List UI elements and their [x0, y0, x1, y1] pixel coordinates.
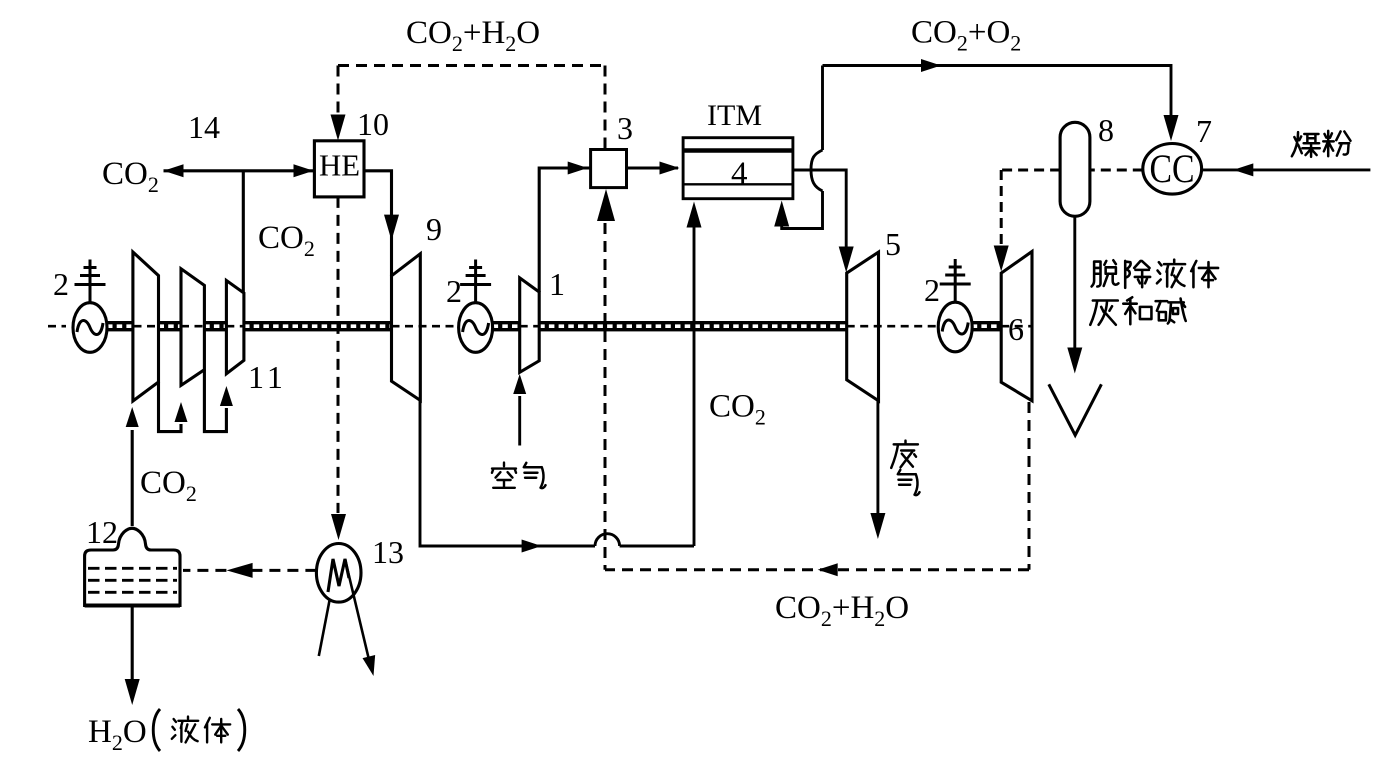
generator 2 (right)	[938, 259, 972, 352]
svg-text:14: 14	[188, 109, 220, 145]
svg-text:2: 2	[446, 273, 462, 309]
svg-text:13: 13	[372, 534, 404, 570]
heat exchanger HE (10)	[314, 141, 364, 197]
pipe: turbine 9 exhaust down and across	[420, 400, 595, 546]
dashed pipe: compressor 6 outlet down	[1028, 402, 1031, 570]
pipe: waste gas outlet	[876, 401, 879, 514]
svg-text:7: 7	[1196, 113, 1212, 149]
pipe: CO2 export / HE feed line with two arrowheads	[164, 169, 315, 172]
svg-text:1: 1	[549, 266, 565, 302]
V symbol (drain container)	[1049, 384, 1102, 435]
compressor 11: stage 3	[226, 281, 244, 374]
svg-text:CC: CC	[1150, 146, 1195, 191]
cooler 13 left leg	[319, 601, 330, 657]
pipe hop over dashed line	[595, 534, 620, 546]
pipe: S-hop of CO2+O2 line over ITM outlet	[811, 150, 823, 191]
svg-text:ITM: ITM	[707, 99, 762, 132]
cooler 13	[316, 544, 361, 603]
svg-text:10: 10	[357, 106, 389, 142]
dashed pipe: recycle up into mixer 3 bottom	[604, 223, 607, 570]
label coal powder (meifen)	[1292, 132, 1320, 157]
pipe: intercooler loop stage1 to stage2	[159, 382, 182, 432]
ash removal vessel 8	[1060, 122, 1090, 216]
svg-text:4: 4	[731, 156, 748, 192]
dashed pipe: recycle CO2+H2O into HE top	[337, 66, 340, 117]
dashed pipe: bottom CO2+H2O return	[605, 568, 1029, 571]
pipe: compressor discharge riser to HE line	[242, 171, 245, 293]
pipe: top CO2+O2 header to CC	[823, 66, 1172, 119]
svg-text:11: 11	[248, 359, 287, 395]
svg-text:3: 3	[617, 110, 633, 146]
svg-text:6: 6	[1008, 311, 1024, 347]
label air (kongqi)	[492, 463, 516, 488]
pipe: vessel 8 bottom drain	[1073, 216, 1076, 351]
turbine 5	[847, 252, 879, 401]
dashed pipe: top left CO2+H2O header	[338, 64, 605, 67]
turbine 9	[392, 254, 421, 401]
mixer box 3	[591, 150, 627, 188]
combustion chamber CC (7)	[1143, 144, 1202, 195]
tank 12 water level dashes	[88, 568, 177, 592]
pipe: CO2 riser into ITM bottom	[693, 227, 696, 546]
pipe: tank 12 water drain	[131, 606, 134, 683]
pipe: CO2 inlet from separator 12 to stage 1	[131, 430, 134, 526]
compressor 11: stage 2	[181, 269, 204, 386]
dashed pipe: downcomer into compressor 6	[1000, 170, 1003, 246]
pipe: CO2+O2 line up to top header	[821, 66, 824, 151]
air compressor 1	[520, 278, 540, 372]
pipe: across to CO2 riser	[620, 545, 694, 548]
svg-text:8: 8	[1098, 112, 1114, 148]
pipe: ITM bottom right port L-connection	[782, 191, 823, 229]
svg-text:5: 5	[885, 226, 901, 262]
dashed pipe: cooler 13 to separator 12	[183, 569, 316, 572]
pipe: HE outlet to turbine 9	[364, 171, 392, 276]
label: remove liquid ash and alkali	[1092, 260, 1119, 286]
shaft thick bar segments with white dashed centerline	[106, 321, 1001, 331]
svg-text:HE: HE	[319, 148, 360, 183]
label waste gas (feiqi)	[891, 441, 918, 468]
generator 2 (middle)	[459, 260, 493, 353]
svg-text:2: 2	[53, 266, 69, 302]
cooler 13 internal M coil	[328, 559, 349, 592]
dashed pipe: header down to mixer 3	[604, 66, 607, 150]
svg-text:12: 12	[86, 514, 118, 550]
pipe: ITM retentate outlet to turbine 5	[793, 170, 846, 250]
shaft thin dashed centerline segments	[48, 325, 1032, 328]
pipe: intercooler loop stage2 to stage3	[204, 370, 226, 432]
generator 2 (left)	[73, 260, 107, 353]
svg-text:CO2+H2O: CO2+H2O	[775, 590, 909, 631]
pipe: air inlet	[518, 396, 521, 446]
dashed pipe: vessel 8 to downcomer	[1001, 169, 1060, 172]
pipe: mixer 3 to ITM	[627, 166, 679, 169]
separator tank 12	[85, 528, 180, 605]
multistage CO2 compressor 11: stage 1	[133, 252, 159, 401]
cooler 13 right leg with arrow	[345, 559, 370, 664]
pipe: coal feed line	[1202, 168, 1371, 171]
dashed pipe: HE bottom to cooler 13	[337, 197, 340, 513]
svg-text:2: 2	[924, 272, 940, 308]
recycle compressor 6	[1001, 252, 1032, 401]
svg-text:CO2+H2O: CO2+H2O	[406, 15, 540, 56]
svg-text:9: 9	[426, 211, 442, 247]
dashed pipe: CC outlet to vessel 8	[1090, 169, 1143, 172]
ITM membrane unit (4)	[683, 138, 793, 199]
pipe: compressor 1 discharge to mixer 3	[539, 168, 590, 292]
